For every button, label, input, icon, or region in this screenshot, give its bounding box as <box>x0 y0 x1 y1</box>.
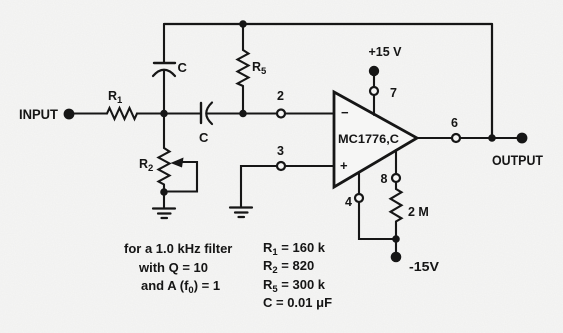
capacitor C (horizontal, series) <box>200 103 202 123</box>
capacitor C (vertical, top-left) <box>154 62 175 64</box>
svg-text:C = 0.01 μF: C = 0.01 μF <box>263 295 332 310</box>
wire cap to pin 2 <box>207 112 278 114</box>
node: -15V junction <box>392 235 400 243</box>
wire R1 to cap C <box>137 112 201 114</box>
wire pin 4 down and right <box>359 202 396 239</box>
svg-text:-15V: -15V <box>409 260 440 274</box>
node: R2 bottom junction <box>160 188 168 196</box>
op-amp U1 MC1776,C <box>334 92 417 187</box>
svg-text:+: + <box>340 158 348 173</box>
svg-text:6: 6 <box>451 116 458 130</box>
resistor R1 <box>107 108 137 119</box>
svg-text:4: 4 <box>345 195 352 209</box>
-15V terminal dot <box>391 252 402 263</box>
node: R5 bottom junction <box>239 110 247 118</box>
pin 2 <box>277 110 285 118</box>
wire pin 2 to op-amp inverting input <box>285 112 334 114</box>
svg-text:OUTPUT: OUTPUT <box>492 153 544 168</box>
ground (pin 3) <box>230 208 252 218</box>
resistor R2 (potentiometer) <box>163 114 165 149</box>
svg-text:INPUT: INPUT <box>19 107 59 122</box>
wire input to R1 <box>74 112 107 114</box>
node: top rail / R5 junction <box>239 20 247 28</box>
svg-text:MC1776,C: MC1776,C <box>338 132 399 146</box>
wire to ground <box>163 192 165 208</box>
pin 7 <box>370 87 378 95</box>
svg-text:with Q = 10: with Q = 10 <box>138 260 208 275</box>
resistor 2M <box>395 183 397 189</box>
wire pin 6 to output <box>460 137 522 139</box>
node: feedback junction <box>488 134 496 142</box>
svg-text:8: 8 <box>381 172 388 186</box>
wire node up to top rail <box>163 24 165 114</box>
node: input node junction <box>160 110 168 118</box>
wire: top rail <box>164 23 492 25</box>
wire op-amp output to pin 6 <box>417 137 452 139</box>
wire pin 7 to op-amp top <box>373 95 375 115</box>
wire pin 3 to op-amp non-inverting input <box>285 165 334 167</box>
svg-text:for a 1.0 kHz filter: for a 1.0 kHz filter <box>124 241 232 256</box>
pin 8 <box>395 150 397 174</box>
pin 6 <box>452 134 460 142</box>
wire +15V to pin 7 <box>373 74 375 87</box>
wire to -15V terminal <box>395 239 397 252</box>
svg-text:C: C <box>199 130 209 145</box>
input terminal dot <box>64 109 75 120</box>
svg-text:−: − <box>341 105 349 120</box>
svg-text:7: 7 <box>390 86 397 100</box>
resistor R5 <box>242 24 244 50</box>
svg-text:2: 2 <box>277 89 284 103</box>
wire feedback (top rail down) <box>491 24 493 138</box>
wire pin 3 to ground <box>241 166 277 207</box>
svg-text:+15 V: +15 V <box>369 45 403 59</box>
pin 3 <box>277 162 285 170</box>
svg-text:C: C <box>178 60 188 75</box>
R2 wiper arrow <box>168 162 197 192</box>
svg-text:2 M: 2 M <box>408 205 429 219</box>
ground (below R2) <box>153 209 175 219</box>
pin 4 <box>358 172 360 194</box>
output terminal dot <box>517 133 528 144</box>
svg-text:3: 3 <box>277 144 284 158</box>
